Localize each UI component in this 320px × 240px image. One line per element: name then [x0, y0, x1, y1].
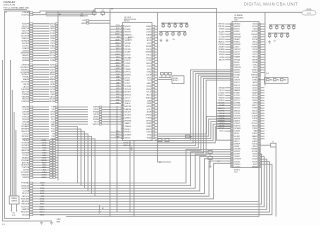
capacitor	[93, 12, 97, 15]
wire segment w332 (288.8,24.9)-(288.8,26.4)	[288, 25, 290, 27]
wire segment w149 (154.8,26.3)-(157.5,26.3)	[155, 25, 158, 27]
CL8 box2	[165, 139, 169, 142]
svg-text:KV46T4: KV46T4	[234, 64, 240, 66]
svg-text:XDBDR: XDBDR	[252, 115, 258, 117]
wire segment w82 (55.4,145.5)-(58,145.5)	[55, 145, 58, 147]
spare wire 1	[11, 90, 13, 196]
wire segment w65 (32.8,129.05)-(49,129.05)	[33, 128, 49, 130]
svg-text:NMFLT: NMFLT	[252, 105, 257, 107]
svg-text:C13: C13	[172, 31, 175, 33]
wire segment w78 (32.8,143.05)-(49.6,143.05)	[33, 142, 50, 144]
wire segment w270 (225.2,105.6)-(230.6,105.6)	[225, 105, 230, 107]
spare wire 0	[10, 60, 12, 196]
aux top wire D	[46, 15, 88, 17]
wire segment w209 (154.8,120.68)-(157.5,120.68)	[155, 120, 158, 122]
wire segment w33 (32.8,89.3)-(49,89.3)	[33, 88, 49, 90]
wire segment w87 (32.8,150.4)-(49.6,150.4)	[33, 149, 50, 151]
wire segment w79 (55.4,143.05)-(58,143.05)	[55, 142, 58, 144]
svg-text:CLK: CLK	[266, 73, 269, 75]
wire segment w172 (110,60.62)-(121.2,60.62)	[110, 60, 121, 62]
wire segment w30 (32.8,81.95)-(49,81.95)	[33, 81, 49, 83]
wire segment w279 (225.2,113.25)-(230.6,113.25)	[225, 112, 230, 114]
svg-text:Z3SWTS: Z3SWTS	[218, 95, 224, 97]
wire segment w51 (32.8,116.8)-(49,116.8)	[33, 116, 49, 118]
wire segment w35 (32.8,94.2)-(49,94.2)	[33, 93, 49, 95]
svg-text:C22: C22	[274, 33, 277, 35]
wire segment w60 (32.8,124.15)-(49,124.15)	[33, 123, 49, 125]
wire segment w288 (225.2,120.9)-(230.6,120.9)	[225, 120, 230, 122]
wire segment w177 (154.8,66.34)-(157.5,66.34)	[155, 65, 158, 67]
wire segment w292 (216.5,123.45)-(230.6,123.45)	[217, 122, 231, 124]
wire segment w286 (216.5,118.35)-(230.6,118.35)	[217, 117, 231, 119]
capacitor	[101, 12, 105, 15]
svg-text:FK0S: FK0S	[116, 59, 120, 61]
wire segment w62 (101.6,124.15)-(121,124.15)	[102, 123, 121, 125]
wire segment w241 (260.4,49.5)-(264.5,49.5)	[260, 49, 264, 51]
wire segment w205 (154.8,109.24)-(157.5,109.24)	[155, 108, 158, 110]
svg-text:3YCT: 3YCT	[116, 51, 120, 53]
svg-text:R41: R41	[277, 80, 280, 82]
wire segment w52 (58,116.8)-(88,116.8)	[58, 116, 88, 118]
svg-text:61DJ0D: 61DJ0D	[22, 214, 30, 216]
wire segment w169 (154.8,54.9)-(157.5,54.9)	[155, 54, 158, 56]
wire segment w16 (32.8,45.75)-(49,45.75)	[33, 45, 49, 47]
wire segment w23 (32.8,64.8)-(49,64.8)	[33, 64, 49, 66]
wire segment w271 (216.5,105.6)-(230.6,105.6)	[217, 105, 231, 107]
wire segment w240 (225.2,49.5)-(230.6,49.5)	[225, 49, 230, 51]
svg-text:42VRG1: 42VRG1	[218, 39, 224, 41]
svg-text:R15: R15	[186, 23, 189, 25]
wire segment w153 (154.8,32.02)-(157.5,32.02)	[155, 31, 158, 33]
wire segment w236 (225.2,44.4)-(230.6,44.4)	[225, 43, 230, 45]
svg-text:R23: R23	[282, 25, 285, 27]
svg-text:UINY: UINY	[116, 100, 119, 102]
bundle S wire 3	[58, 75, 231, 148]
wire segment w111 (55.4,174.9)-(58,174.9)	[55, 174, 58, 176]
wire segment w13 (32.8,38.4)-(49,38.4)	[33, 37, 49, 39]
svg-text:P3LDYJ: P3LDYJ	[219, 90, 225, 92]
wire segment w225 (260.4,29.1)-(264.5,29.1)	[260, 28, 264, 30]
svg-text:3MVY5B: 3MVY5B	[125, 32, 131, 34]
svg-text:ZIBE: ZIBE	[116, 82, 119, 84]
wire segment w244 (225.2,54.6)-(230.6,54.6)	[225, 54, 230, 56]
wire segment w310 (169.2,26.7)-(169.2,28)	[168, 27, 170, 28]
wire segment w329 (282.8,28.4)-(282.8,29.7)	[282, 28, 284, 29]
wire segment w298 (216.5,128.55)-(230.6,128.55)	[217, 128, 231, 130]
CL5 rail	[159, 77, 171, 79]
svg-text:CY46E0: CY46E0	[234, 113, 240, 115]
wire segment w104 (32.8,167.55)-(49.6,167.55)	[33, 167, 50, 169]
wire segment w163 (154.8,46.32)-(157.5,46.32)	[155, 45, 158, 47]
wire segment w184 (110,77.78)-(121.2,77.78)	[110, 77, 121, 79]
wire segment w189 (154.8,83.5)-(157.5,83.5)	[155, 83, 158, 85]
svg-text:CHWRD: CHWRD	[145, 115, 152, 117]
bottom wire R12	[33, 164, 272, 214]
svg-text:VZDTG: VZDTG	[252, 143, 258, 145]
svg-text:+5V: +5V	[273, 41, 276, 43]
bundle B wire 2	[158, 122, 231, 139]
svg-text:R21: R21	[270, 25, 273, 27]
wire segment w328 (276.8,24.9)-(276.8,26.4)	[276, 25, 278, 27]
svg-text:R25: R25	[293, 25, 296, 27]
wire segment w165 (154.8,49.18)-(157.5,49.18)	[155, 48, 158, 50]
svg-text:2YF3: 2YF3	[116, 79, 120, 81]
wire segment w212 (154.8,129.26)-(157.5,129.26)	[155, 128, 158, 130]
svg-text:MLZFBD: MLZFBD	[218, 110, 225, 112]
svg-text:Y1: Y1	[272, 141, 274, 143]
wire segment w152 (110,32.02)-(121.2,32.02)	[110, 31, 121, 33]
IC1 bottom dropper 1	[129, 141, 131, 213]
svg-text:S8BGCN: S8BGCN	[218, 108, 225, 110]
wire segment w300 (225.2,131.1)-(230.6,131.1)	[225, 130, 230, 132]
wire segment w198 (110,97.8)-(121.2,97.8)	[110, 97, 121, 99]
svg-text:Y2RPP: Y2RPP	[252, 128, 257, 130]
svg-text:14NL07: 14NL07	[234, 47, 239, 49]
wire segment w148 (110,26.3)-(121.2,26.3)	[110, 25, 121, 27]
svg-text:7PVYCM: 7PVYCM	[125, 89, 132, 91]
svg-text:6SLNIM: 6SLNIM	[234, 136, 240, 138]
CL8 box1	[158, 139, 162, 142]
component box b11 at (185.6,24.7)	[186, 25, 188, 27]
svg-text:V2M7BO: V2M7BO	[234, 164, 241, 166]
wire segment w56 (101.6,119.25)-(121,119.25)	[102, 118, 121, 120]
svg-text:HR1OI5: HR1OI5	[219, 59, 225, 61]
svg-text:2V0DV: 2V0DV	[252, 159, 257, 161]
svg-text:LKGURB: LKGURB	[234, 149, 240, 151]
wire segment w237 (260.4,44.4)-(264.5,44.4)	[260, 43, 264, 45]
svg-text:C15: C15	[184, 31, 187, 33]
wire segment w91 (55.4,152.85)-(58,152.85)	[55, 152, 58, 154]
wire segment w276 (225.2,110.7)-(230.6,110.7)	[225, 110, 230, 112]
wire segment w211 (154.8,126.4)-(157.5,126.4)	[155, 125, 158, 127]
svg-text:NOTE 2: NOTE 2	[173, 80, 179, 82]
svg-text:L0KS: L0KS	[116, 88, 120, 90]
wire segment w275 (260.4,108.15)-(264.5,108.15)	[260, 107, 264, 109]
wire segment w109 (55.4,172.45)-(58,172.45)	[55, 171, 58, 173]
svg-text:SXPUV5: SXPUV5	[234, 54, 240, 56]
wire segment w160 (110,43.46)-(121.2,43.46)	[110, 42, 121, 44]
svg-text:2W2RDT: 2W2RDT	[234, 72, 240, 74]
svg-text:WODL3: WODL3	[252, 123, 258, 125]
svg-text:DIGITAL MAIN CBA UNIT: DIGITAL MAIN CBA UNIT	[244, 2, 298, 7]
wire segment w267 (225.2,103.05)-(230.6,103.05)	[225, 102, 230, 104]
component box b10 at (180,24.7)	[180, 25, 182, 27]
svg-text:ZJJUU2: ZJJUU2	[219, 34, 225, 36]
svg-text:E1: E1	[102, 208, 104, 210]
wire segment w20 (32.8,55.55)-(49,55.55)	[33, 55, 49, 57]
svg-text:6NRS2G: 6NRS2G	[234, 110, 241, 112]
svg-text:RRM3P: RRM3P	[146, 46, 151, 48]
svg-text:HFKW: HFKW	[81, 23, 86, 25]
component box b12 at (159.8,32.9)	[160, 33, 162, 35]
wire segment w46 (58,111.9)-(88,111.9)	[58, 111, 88, 113]
wire segment w291 (225.2,123.45)-(230.6,123.45)	[225, 122, 230, 124]
wire segment w105 (55.4,167.55)-(58,167.55)	[55, 167, 58, 169]
wire segment w71 (32.8,136.4)-(49,136.4)	[33, 135, 49, 137]
wire segment w326 (270.8,24.9)-(270.8,26.4)	[270, 25, 272, 27]
wire segment w171 (154.8,57.76)-(157.5,57.76)	[155, 57, 158, 59]
wire segment w99 (55.4,160.2)-(58,160.2)	[55, 159, 58, 161]
svg-text:EY7L3R: EY7L3R	[125, 55, 132, 57]
wire segment w14 (32.8,40.85)-(49,40.85)	[33, 40, 49, 42]
svg-text:WF3OLD: WF3OLD	[125, 95, 132, 97]
svg-text:T217YD: T217YD	[125, 97, 132, 99]
svg-text:1D8XWT: 1D8XWT	[234, 138, 240, 140]
wire segment w101 (55.4,162.65)-(58,162.65)	[55, 162, 58, 164]
CL6 group box	[265, 78, 289, 84]
CL6 feed	[259, 79, 265, 81]
svg-text:C08KZ: C08KZ	[147, 72, 152, 74]
svg-text:E4: E4	[218, 161, 220, 163]
wire segment w166 (110,52.04)-(121.2,52.04)	[110, 51, 121, 53]
wire segment w73 (32.8,138.85)-(49,138.85)	[33, 138, 49, 140]
svg-text:6KHF6G: 6KHF6G	[234, 26, 241, 28]
spare note box	[9, 196, 19, 204]
svg-text:J3JS11: J3JS11	[219, 123, 224, 125]
wire segment w317 (186.8,23.2)-(186.8,24.7)	[186, 23, 188, 25]
wire segment w110 (32.8,174.9)-(49.6,174.9)	[33, 174, 50, 176]
bundle B wire 4	[158, 127, 231, 143]
IC U2 outline	[232, 22, 259, 168]
svg-text:75DGJV: 75DGJV	[219, 115, 226, 117]
wire segment w282 (225.2,115.8)-(230.6,115.8)	[225, 115, 230, 117]
CL6 mini 2	[281, 79, 284, 81]
wire segment w273 (225.2,108.15)-(230.6,108.15)	[225, 107, 230, 109]
svg-text:1YLU: 1YLU	[116, 57, 120, 59]
wire segment w58 (58,121.7)-(88,121.7)	[58, 121, 88, 123]
wire segment w59 (101.6,121.7)-(121,121.7)	[102, 121, 121, 123]
component box b13 at (165.8,32.9)	[166, 33, 168, 35]
wire segment w302 (260.4,133.65)-(264.5,133.65)	[260, 133, 264, 135]
svg-text:R12: R12	[168, 23, 171, 25]
svg-text:CH103E: CH103E	[234, 87, 240, 89]
wire segment w44 (101.6,109.45)-(121,109.45)	[102, 108, 121, 110]
bundle S wire 0	[58, 70, 231, 141]
wire segment w84 (32.8,147.95)-(49.6,147.95)	[33, 147, 50, 149]
wire segment w346 (210.1,153.5)-(210.1,156.5)	[209, 154, 211, 157]
wire segment w8 (32.8,26.15)-(49,26.15)	[33, 25, 49, 27]
svg-text:RZYJY: RZYJY	[146, 92, 151, 94]
wire segment w266 (260.4,100.5)-(264.5,100.5)	[260, 100, 264, 102]
wire segment w185 (154.8,77.78)-(157.5,77.78)	[155, 77, 158, 79]
CL3A rail	[161, 22, 188, 24]
bottom wire L6	[33, 163, 231, 199]
svg-text:XTK8KE: XTK8KE	[125, 69, 131, 71]
wire segment w215 (110,134.98)-(121.2,134.98)	[110, 134, 121, 136]
IC1 bottom dropper 2	[133, 141, 135, 217]
wire segment w183 (154.8,74.92)-(157.5,74.92)	[155, 74, 158, 76]
bottom wire R8	[33, 154, 262, 204]
svg-text:ML84CU: ML84CU	[125, 26, 131, 28]
bottom wire L3	[33, 156, 231, 191]
wire segment w220 (225.2,24)-(230.6,24)	[225, 23, 230, 25]
svg-text:CM5D79: CM5D79	[234, 80, 240, 82]
svg-text:R13: R13	[174, 23, 177, 25]
svg-text:HXDRS: HXDRS	[252, 47, 257, 49]
bundle S wire 1	[58, 72, 231, 143]
wire segment w243 (260.4,52.05)-(264.5,52.05)	[260, 51, 264, 53]
svg-text:VFYBW: VFYBW	[49, 101, 56, 103]
component box b25 at (286.4,34.7)	[286, 35, 288, 37]
svg-text:SEE 5-2: SEE 5-2	[124, 145, 130, 147]
wire segment w67 (32.8,131.5)-(49,131.5)	[33, 131, 49, 133]
wire segment w239 (260.4,46.95)-(264.5,46.95)	[260, 46, 264, 48]
wire segment w347 (210.1,159.5)-(210.1,164.5)	[209, 160, 211, 165]
wire segment w314 (181.2,26.7)-(181.2,28)	[180, 27, 182, 28]
svg-text:I5XOS: I5XOS	[253, 52, 257, 54]
wire segment w341 (165.9,74.9)-(165.9,77.5)	[165, 75, 167, 78]
svg-text:G8X9O1: G8X9O1	[125, 100, 131, 102]
wire segment w191 (154.8,86.36)-(157.5,86.36)	[155, 85, 158, 87]
svg-text:PNNHCC: PNNHCC	[125, 132, 133, 134]
title block rule	[4, 8, 28, 10]
svg-text:NSLIL8: NSLIL8	[234, 133, 239, 135]
svg-text:TLY2C1: TLY2C1	[219, 131, 225, 133]
svg-text:C14: C14	[178, 31, 181, 33]
svg-text:CVHZ: CVHZ	[116, 74, 120, 76]
svg-text:38EHXP: 38EHXP	[234, 143, 240, 145]
svg-text:VY35KJ: VY35KJ	[234, 95, 240, 97]
svg-text:LPPJTM: LPPJTM	[125, 49, 132, 51]
wire segment w97 (55.4,157.75)-(58,157.75)	[55, 157, 58, 159]
wire segment w12 (32.8,35.95)-(49,35.95)	[33, 35, 49, 37]
wire segment w311 (169.2,23.2)-(169.2,24.7)	[168, 23, 170, 25]
svg-text:RMEWYS: RMEWYS	[125, 34, 132, 36]
bus line X157	[158, 12, 172, 162]
crystal drop wire	[275, 147, 277, 217]
wire segment w253 (260.4,69.9)-(264.5,69.9)	[260, 69, 264, 71]
CL6 mini 1	[274, 79, 277, 81]
wire segment w54 (32.8,119.25)-(49,119.25)	[33, 118, 49, 120]
svg-text:OEYI3: OEYI3	[253, 120, 258, 122]
wire segment w195 (154.8,92.08)-(157.5,92.08)	[155, 91, 158, 93]
svg-text:Z49F9: Z49F9	[253, 103, 258, 105]
wire segment w331 (288.8,28.4)-(288.8,29.7)	[288, 28, 290, 29]
svg-text:HFRVO: HFRVO	[252, 113, 258, 115]
svg-text:P0KR25: P0KR25	[234, 41, 240, 43]
wire segment w34 (32.8,91.75)-(49,91.75)	[33, 91, 49, 93]
svg-text:32IMPF: 32IMPF	[22, 177, 30, 179]
svg-text:5-21: 5-21	[12, 215, 15, 217]
wire segment w168 (110,54.9)-(121.2,54.9)	[110, 54, 121, 56]
wire segment w113 (55.4,177.35)-(58,177.35)	[55, 176, 58, 178]
svg-text:5-21: 5-21	[307, 13, 310, 15]
svg-text:N8F3H: N8F3H	[252, 59, 257, 61]
bundle B wire 3	[158, 124, 231, 140]
wire segment w192 (110,89.22)-(121.2,89.22)	[110, 88, 121, 90]
wire segment w53 (101.6,116.8)-(121,116.8)	[102, 116, 121, 118]
wire segment w22 (32.8,60.45)-(49,60.45)	[33, 59, 49, 61]
svg-text:S6X9F: S6X9F	[252, 100, 257, 102]
svg-text:1XRGOU: 1XRGOU	[234, 49, 240, 51]
bottom wire R10	[33, 159, 267, 209]
wire segment w7 (32.8,23.7)-(49,23.7)	[33, 23, 49, 25]
wire segment w323 (184.8,34.9)-(184.8,36.2)	[184, 35, 186, 36]
wire segment w227 (260.4,31.65)-(264.5,31.65)	[260, 31, 264, 33]
wire segment w264 (260.4,97.95)-(264.5,97.95)	[260, 97, 264, 99]
svg-text:FX1HNZ: FX1HNZ	[125, 29, 131, 31]
svg-text:WVPCU: WVPCU	[93, 124, 100, 126]
wire segment w25 (32.8,69.7)-(49,69.7)	[33, 69, 49, 71]
wire segment w228 (225.2,34.2)-(230.6,34.2)	[225, 33, 230, 35]
wire segment w38 (32.8,101.55)-(49,101.55)	[33, 101, 49, 103]
wire segment w313 (175.2,23.2)-(175.2,24.7)	[174, 23, 176, 25]
bundle B wire 1	[158, 119, 231, 136]
svg-text:Y21EL: Y21EL	[252, 64, 257, 66]
svg-text:B28GX5: B28GX5	[125, 137, 131, 139]
svg-text:48P3GX: 48P3GX	[234, 151, 240, 153]
wire segment w216 (154.8,134.98)-(157.5,134.98)	[155, 134, 158, 136]
wire segment w151 (154.8,29.16)-(157.5,29.16)	[155, 28, 158, 30]
wire to crystal Y1	[260, 144, 270, 146]
aux top wire C	[46, 13, 95, 15]
wire segment w181 (154.8,72.06)-(157.5,72.06)	[155, 71, 158, 73]
wire segment w206 (154.8,112.1)-(157.5,112.1)	[155, 111, 158, 113]
svg-text:3LOGRO: 3LOGRO	[125, 115, 132, 117]
svg-text:WCRV: WCRV	[115, 34, 119, 36]
component box b16 at (183.6,32.9)	[184, 33, 186, 35]
wire segment w93 (32.8,155.3)-(49.6,155.3)	[33, 154, 50, 156]
svg-text:FJVBX: FJVBX	[252, 108, 257, 110]
svg-text:XV8J3V: XV8J3V	[219, 29, 226, 31]
svg-text:C12: C12	[166, 31, 169, 33]
svg-text:M0KP: M0KP	[116, 39, 120, 41]
wire segment w40 (58,107)-(88,107)	[58, 106, 88, 108]
wire segment w278 (260.4,110.7)-(264.5,110.7)	[260, 110, 264, 112]
wire segment w202 (110,103.52)-(121.2,103.52)	[110, 103, 121, 105]
wire segment w182 (110,74.92)-(121.2,74.92)	[110, 74, 121, 76]
svg-text:PMKVMZ: PMKVMZ	[125, 120, 132, 122]
wire segment w213 (110,132.12)-(121.2,132.12)	[110, 131, 121, 133]
bus line X110	[109, 8, 111, 216]
bundle S wire 2	[58, 73, 231, 145]
bus line X58	[57, 11, 59, 181]
svg-text:KOEXRK: KOEXRK	[125, 86, 132, 88]
CL5 group box	[172, 76, 184, 84]
wire segment w187 (154.8,80.64)-(157.5,80.64)	[155, 80, 158, 82]
wire segment w108 (32.8,172.45)-(49.6,172.45)	[33, 171, 50, 173]
wire segment w19 (32.8,53.1)-(49,53.1)	[33, 52, 49, 54]
wire segment w139 (94.2,14.4)-(94.2,15.9)	[93, 14, 95, 16]
wire segment w157 (154.8,37.74)-(157.5,37.74)	[155, 37, 158, 39]
svg-text:F2BYNU: F2BYNU	[218, 26, 225, 28]
wire segment w233 (260.4,39.3)-(264.5,39.3)	[260, 38, 264, 40]
svg-text:5K8BN8: 5K8BN8	[22, 60, 29, 62]
wire segment w55 (58,119.25)-(88,119.25)	[58, 118, 88, 120]
svg-text:+5V: +5V	[172, 39, 175, 41]
wire segment w334 (293.8,24.9)-(293.8,26.4)	[293, 25, 295, 27]
wire segment w161 (154.8,43.46)-(157.5,43.46)	[155, 42, 158, 44]
wire segment w112 (32.8,177.35)-(49.6,177.35)	[33, 176, 50, 178]
wire segment w176 (110,66.34)-(121.2,66.34)	[110, 65, 121, 67]
wire segment w81 (32.8,145.5)-(49.6,145.5)	[33, 145, 50, 147]
wire segment w277 (216.5,110.7)-(230.6,110.7)	[217, 110, 231, 112]
svg-text:2O7T4B: 2O7T4B	[219, 36, 225, 38]
wire segment w330 (282.8,24.9)-(282.8,26.4)	[282, 25, 284, 27]
wire segment w252 (260.4,67.35)-(264.5,67.35)	[260, 66, 264, 68]
bundle P wire 0	[58, 127, 78, 183]
component box b23 at (274.4,34.7)	[274, 35, 276, 37]
ground symbol 3 at (161,38.5)	[160, 39, 163, 42]
wire segment w261 (225.2,95.4)-(230.6,95.4)	[225, 94, 230, 96]
wire segment w196 (110,94.94)-(121.2,94.94)	[110, 94, 121, 96]
svg-text:R90Y: R90Y	[116, 91, 120, 93]
pin number boxes	[30, 12, 261, 216]
svg-text:VE0R: VE0R	[116, 48, 120, 50]
svg-text:5-18: 5-18	[234, 172, 237, 174]
wire segment w11 (32.8,33.5)-(49,33.5)	[33, 33, 49, 35]
svg-text:R11: R11	[162, 23, 165, 25]
